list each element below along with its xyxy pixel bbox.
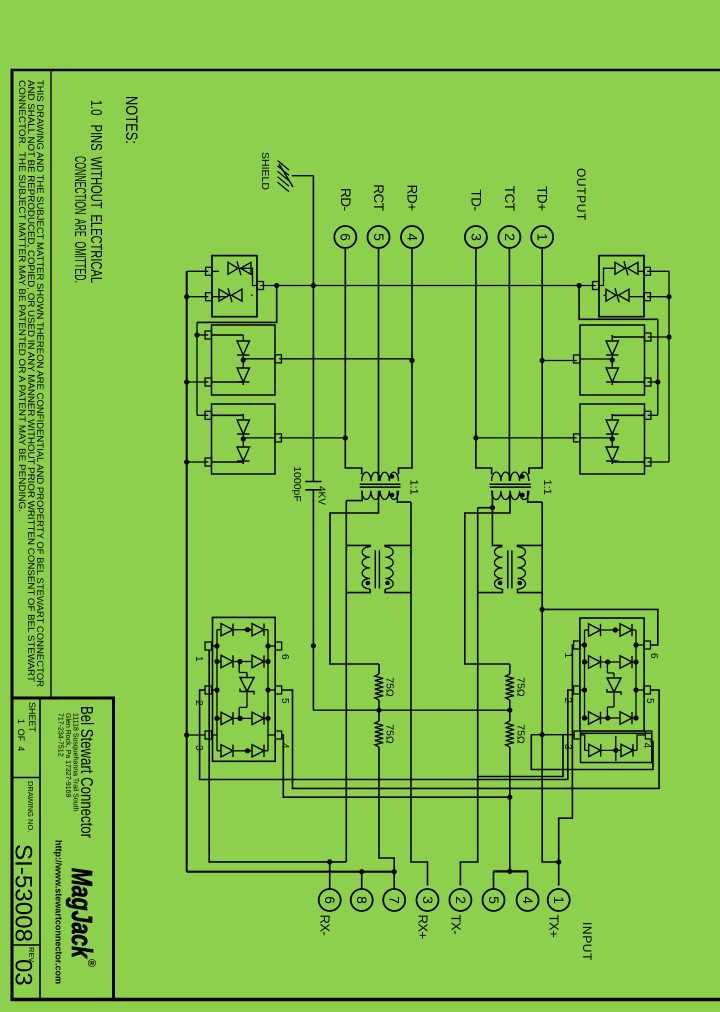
- wire RCT pin5 to RX primary center tap: [378, 248, 380, 481]
- RX termination row left segment: [378, 664, 380, 674]
- wire input pin8 stub: [361, 872, 363, 889]
- shield wire rail: [312, 176, 314, 482]
- svg-text:2: 2: [193, 700, 204, 706]
- svg-text:4: 4: [641, 743, 652, 749]
- riser lower zener box pin1 to R1b: [187, 270, 209, 272]
- riser box D2 pin2 to R2: [648, 381, 658, 383]
- RX- vertical to bottom box pin1: [209, 651, 346, 862]
- RX choke top right lead: [385, 589, 411, 593]
- svg-text:SHIELD: SHIELD: [259, 152, 271, 190]
- svg-text:75Ω: 75Ω: [384, 724, 396, 744]
- tvs array center zener: [238, 662, 240, 673]
- tvs array diode chain: [217, 717, 221, 719]
- RX choke bottom left lead: [346, 545, 370, 547]
- TX termination row middle: [509, 700, 511, 721]
- svg-text:OUTPUT: OUTPUT: [574, 168, 588, 221]
- svg-text:03: 03: [10, 959, 37, 986]
- RX termination row middle: [378, 700, 380, 721]
- U3 pin 3: [205, 731, 212, 739]
- TX secondary center tap route: [465, 491, 510, 664]
- riser box D3 pin2 to R1: [648, 461, 669, 463]
- junction pin6 rail on TX+: [540, 607, 545, 612]
- tvs array diode chain: [217, 661, 221, 663]
- junction pin3 riser on TX+: [540, 732, 545, 737]
- svg-text:6: 6: [338, 233, 354, 241]
- junction TD- / TVS box3 riser: [473, 435, 478, 440]
- input pin 4 circle: [517, 889, 539, 911]
- TX choke top left lead: [518, 545, 543, 547]
- wire TD+ pin1 to transformer: [529, 248, 542, 474]
- RX- rail: [345, 501, 347, 862]
- U1 pin6 riser and rail to TX+: [542, 609, 658, 645]
- transformer secondary winding: [492, 491, 529, 500]
- common-mode choke core: [378, 550, 380, 588]
- riser box D3b pin1 to R2b: [197, 414, 208, 416]
- common-mode choke top winding: [385, 547, 393, 589]
- RX+ rail to input pin 3: [411, 502, 428, 885]
- svg-text:Glen Rock, Pa 17327-9169: Glen Rock, Pa 17327-9169: [64, 713, 71, 798]
- output pin 2 circle (TCT): [498, 226, 520, 248]
- tvs array diode chain: [585, 629, 589, 631]
- junction pair78 pin8: [359, 869, 364, 874]
- junction pair45 tie: [507, 869, 512, 874]
- svg-text:RD+: RD+: [405, 185, 420, 211]
- TVS diode box D2 (TD+ clamp): [580, 325, 645, 395]
- riser box D3b common to RD-: [279, 437, 345, 439]
- small TVS box U2 (top right): [581, 733, 652, 762]
- svg-text:1.0 PINS WITHOUT ELECTRICA: 1.0 PINS WITHOUT ELECTRICAL: [87, 100, 104, 283]
- junction pair78 pin7: [392, 869, 397, 874]
- drawing frame left border: [12, 69, 720, 72]
- svg-text:3: 3: [420, 896, 436, 904]
- U1 top bus: [635, 630, 637, 718]
- tvs array center zener: [606, 662, 608, 673]
- input pins 7/8 tie down to lower rail: [187, 871, 395, 873]
- U2 internal links: [637, 735, 645, 750]
- svg-text:1:1: 1:1: [408, 480, 420, 495]
- transformer core: [360, 483, 401, 485]
- title block outline: [12, 698, 114, 1000]
- junction TD+ / TVS box2 riser: [540, 358, 545, 363]
- choke polarity dots: [385, 581, 390, 586]
- junction zener common branch: [577, 283, 582, 288]
- svg-text:75Ω: 75Ω: [515, 677, 527, 697]
- capacitor C1 1000pF plates: [305, 481, 321, 483]
- big TVS array U1 (top): [580, 618, 644, 731]
- TX choke top right lead: [518, 589, 543, 593]
- bottom clamp rail R1b: [186, 271, 188, 871]
- output pin 1 circle (TD+): [531, 226, 553, 248]
- U1 bottom bus: [584, 630, 586, 718]
- tvs array diode chain: [585, 749, 589, 751]
- wire input pin7 stub: [393, 872, 395, 889]
- RX termination row right segment: [379, 747, 394, 872]
- junction TX+ rail and top box pin1 rail: [556, 859, 561, 864]
- U3 internal pin risers: [212, 645, 218, 647]
- svg-text:TCT: TCT: [502, 186, 517, 211]
- tvs array diode chain: [217, 750, 221, 752]
- svg-text:RD-: RD-: [338, 188, 353, 211]
- title block horizontal divider: [39, 698, 41, 999]
- output pin 4 circle (RD+): [401, 226, 423, 248]
- common-mode choke bottom winding: [494, 547, 502, 589]
- U2 pin4 path: [531, 735, 653, 770]
- svg-text:http://www.stewartconnector.co: http://www.stewartconnector.com: [54, 840, 64, 984]
- svg-text:4KV: 4KV: [316, 486, 327, 505]
- svg-text:®: ®: [85, 959, 97, 967]
- top clamp rail R1: [668, 271, 670, 462]
- svg-text:8: 8: [354, 896, 370, 904]
- svg-text:1: 1: [562, 653, 573, 659]
- common-mode choke bottom winding: [362, 547, 370, 589]
- TVS diode box D3 (TD- clamp): [580, 404, 645, 474]
- svg-text:DRAWING NO.: DRAWING NO.: [26, 781, 35, 832]
- svg-text:RCT: RCT: [371, 184, 386, 210]
- TX- rail to input pin 2: [460, 508, 477, 886]
- junction cap rail / bottom zener box riser: [311, 283, 316, 288]
- junction pair45 to bottom box riser: [507, 795, 512, 800]
- U3 pin1 wire from RX- rail: [208, 651, 210, 862]
- junction termination common RX: [376, 708, 381, 713]
- top clamp rail R2: [657, 319, 659, 415]
- resistor R2 75ohm TX: [506, 721, 514, 747]
- wire RX secondary top to RX+ rail: [397, 491, 411, 502]
- transformer polarity dots: [520, 474, 525, 479]
- svg-text:TD-: TD-: [468, 190, 483, 211]
- svg-text:5: 5: [644, 698, 655, 704]
- riser box D2 common to TD+: [542, 360, 577, 362]
- svg-text:SI-53008: SI-53008: [10, 844, 37, 942]
- U1 pin5 path to bottom box pin5: [282, 690, 659, 788]
- wire TX secondary top to TX+ rail: [528, 491, 543, 502]
- shield stem: [292, 175, 313, 177]
- junction R1 / box D2 pin1: [666, 334, 671, 339]
- wire input pin4 stub: [527, 871, 529, 888]
- svg-text:5: 5: [371, 233, 387, 241]
- input pin 7 circle: [383, 889, 405, 911]
- U1 pin 6: [644, 641, 651, 649]
- TVS diode box D2b (RD+ clamp): [212, 325, 276, 395]
- svg-text:3: 3: [468, 233, 484, 241]
- svg-text:CONNECTOR. THE SUBJECT MATTER: CONNECTOR. THE SUBJECT MATTER MAY BE PAT…: [17, 80, 28, 512]
- transformer secondary winding: [362, 491, 399, 500]
- riser zener box pin2 to R1: [647, 296, 669, 298]
- bottom clamp rail R2b: [196, 322, 198, 415]
- bidirectional TVS box D1 (top): [599, 256, 644, 317]
- U1 pin 5: [644, 686, 651, 694]
- U3 pin 1: [205, 642, 212, 650]
- transformer primary winding: [492, 472, 529, 481]
- riser box D2b pin2 to R1b: [187, 381, 209, 383]
- U3 pin 5: [275, 686, 282, 694]
- svg-text:NOTES:: NOTES:: [122, 96, 141, 144]
- svg-text:RX-: RX-: [318, 915, 333, 936]
- branch lower zener box to R2b corner: [197, 286, 277, 323]
- common-mode choke core: [511, 550, 513, 588]
- TVS diode box D3b (RD- clamp): [212, 404, 276, 474]
- input pin 8 circle: [351, 889, 373, 911]
- output pin 5 circle (RCT): [368, 226, 390, 248]
- svg-text:TD+: TD+: [535, 186, 550, 211]
- svg-text:INPUT: INPUT: [580, 922, 594, 961]
- resistor R3 75ohm RX: [375, 674, 383, 700]
- riser box D2b common to RD+: [279, 358, 412, 360]
- U1 internal pin risers: [580, 644, 585, 646]
- TX choke bottom right lead: [478, 589, 503, 593]
- U3 top bus: [267, 630, 269, 751]
- title block divider drawing/rev: [12, 944, 40, 946]
- drawing frame bottom border: [11, 69, 14, 1001]
- drawing frame right border: [11, 998, 720, 1001]
- svg-text:5: 5: [279, 698, 290, 704]
- U3 pin 2: [205, 686, 212, 694]
- junction RX- to input pin 6: [327, 859, 332, 864]
- svg-text:717-234-7512: 717-234-7512: [57, 713, 64, 757]
- svg-text:SHEET: SHEET: [27, 702, 37, 733]
- riser box D3b pin2 to R1b: [187, 461, 209, 463]
- tvs array diode chain: [585, 661, 589, 663]
- svg-text:CONNECTION ARE OMITTED.: CONNECTION ARE OMITTED.: [71, 156, 88, 283]
- riser lower zener box pin2 to R1b: [187, 296, 209, 298]
- riser box D2b pin1 to R2b: [197, 334, 208, 336]
- input pins 4/5 tie bar: [494, 870, 528, 872]
- input pin 5 circle: [483, 889, 505, 911]
- resistor R1 75ohm TX: [506, 674, 514, 700]
- U2 pin 3: [574, 731, 581, 739]
- junction zener vertical / lower branch: [274, 283, 279, 288]
- tvs array diode chain: [217, 629, 221, 631]
- svg-text:75Ω: 75Ω: [515, 724, 527, 744]
- riser box D2 pin1 to R1: [648, 336, 669, 338]
- svg-text:1: 1: [551, 896, 567, 904]
- TX+ rail to input pin 1: [542, 502, 559, 885]
- svg-text:TX+: TX+: [547, 915, 562, 938]
- choke polarity dots: [518, 581, 523, 586]
- svg-text:1: 1: [535, 233, 551, 241]
- wire input pin6 stub: [329, 862, 331, 889]
- common-mode choke top winding: [518, 547, 526, 589]
- resistor R4 75ohm RX: [375, 721, 383, 747]
- svg-text:1000pF: 1000pF: [291, 466, 303, 502]
- U2 pin3 riser to TX+: [531, 734, 574, 736]
- junction R2 / box D2 pin2: [655, 379, 660, 384]
- TX- drop from secondary bottom: [478, 507, 493, 509]
- wire RD+ pin4 to RX transformer: [399, 248, 413, 474]
- TX termination row left segment: [509, 664, 511, 674]
- U1 pin2 path to bottom box pin2: [200, 690, 574, 780]
- U1 pin 1: [574, 641, 581, 649]
- junction termination common TX: [507, 708, 512, 713]
- rail from pin3 riser to TX- drop: [478, 735, 563, 777]
- U1 pin 2: [574, 686, 581, 694]
- svg-text:2: 2: [453, 896, 469, 904]
- svg-text:4: 4: [520, 896, 536, 904]
- input pin 6 circle: [319, 889, 341, 911]
- termination common vertical: [313, 709, 509, 711]
- RX choke bottom right lead: [346, 589, 370, 593]
- U3 bottom bus: [216, 630, 218, 751]
- svg-text:1 OF 4: 1 OF 4: [16, 719, 26, 752]
- tvs array diode chain: [585, 717, 589, 719]
- transformer polarity dots: [390, 474, 395, 479]
- svg-text:6: 6: [279, 654, 290, 660]
- RX choke top left lead: [385, 545, 411, 547]
- transformer primary winding: [362, 472, 399, 481]
- svg-text:4: 4: [404, 233, 420, 241]
- branch zener box common to R2 corner: [579, 286, 658, 320]
- svg-text:2: 2: [502, 233, 518, 241]
- junction RD+ / TVS boxB riser: [409, 358, 414, 363]
- transformer core: [490, 483, 531, 485]
- output pin 3 circle (TD-): [465, 226, 487, 248]
- U3 pin3 riser to R1b: [187, 734, 205, 736]
- big TVS array U3 (bottom): [213, 617, 276, 761]
- output pin 6 circle (RD-): [334, 226, 356, 248]
- wire RD- pin6 to RX transformer: [345, 248, 361, 474]
- input pin 1 circle: [548, 889, 570, 911]
- svg-text:6: 6: [648, 653, 659, 659]
- svg-text:7: 7: [387, 896, 403, 904]
- svg-text:6: 6: [322, 896, 338, 904]
- riser box D3 common to TD-: [476, 437, 577, 439]
- riser zener box pin1 to R1: [647, 270, 669, 272]
- U3 pin 4: [275, 731, 282, 739]
- riser box D3 pin1 to R2: [648, 414, 658, 416]
- RX secondary center tap route: [330, 491, 379, 664]
- svg-text:75Ω: 75Ω: [384, 677, 396, 697]
- svg-text:4: 4: [279, 743, 290, 749]
- shield symbol hatch: [279, 164, 293, 187]
- U2 pin 4: [645, 731, 652, 739]
- wire TD- pin3 to transformer: [476, 248, 492, 474]
- termination common riser to bottom box pin4: [282, 735, 510, 797]
- U1 pin1 rail to input pin1 junction: [559, 645, 574, 862]
- wire input pin5 stub: [493, 871, 495, 888]
- zener box common long vertical: [260, 285, 596, 287]
- svg-text:1: 1: [193, 656, 204, 662]
- input pin 3 circle: [417, 889, 439, 911]
- bidirectional TVS box D1b (bottom): [212, 256, 257, 317]
- svg-text:MagJack: MagJack: [65, 868, 97, 959]
- svg-text:1:1: 1:1: [541, 480, 553, 495]
- title block divider sheet/drawing: [12, 777, 40, 779]
- svg-text:TX-: TX-: [448, 915, 463, 935]
- U3 pin 6: [275, 642, 282, 650]
- junction RD- / TVS boxC riser: [343, 435, 348, 440]
- junction cap rail / bottom big box pin6 riser: [311, 643, 316, 648]
- svg-text:Bel Stewart Connector: Bel Stewart Connector: [77, 706, 97, 838]
- wire RX secondary bottom lead: [346, 491, 362, 501]
- confidentiality strip top line: [50, 70, 52, 698]
- svg-text:3: 3: [193, 745, 204, 751]
- junction TX- tap on secondary bottom: [490, 505, 495, 510]
- svg-text:11118 Susquehanna Trail South: 11118 Susquehanna Trail South: [72, 713, 79, 812]
- svg-text:5: 5: [486, 896, 502, 904]
- TX termination row right / pair45 line: [509, 747, 511, 871]
- wire TCT pin2 to primary center tap: [508, 248, 510, 481]
- input pin 2 circle: [449, 889, 471, 911]
- wire TX secondary bottom lead: [492, 491, 502, 546]
- svg-text:RX+: RX+: [416, 915, 431, 939]
